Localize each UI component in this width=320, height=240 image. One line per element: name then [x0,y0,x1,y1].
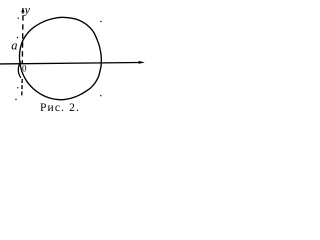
speck dot 6 [100,95,101,96]
y-axis arrowhead [21,8,24,13]
svg-text:y: y [24,2,31,16]
y-axis dashed line (upper part) [21,15,24,63]
circle [19,17,101,99]
speck dot 2 [17,37,18,38]
svg-text:Рис. 2.: Рис. 2. [40,102,80,114]
x-axis arrowhead [139,61,145,64]
svg-text:0: 0 [22,63,27,73]
speck dot 1 [18,18,19,19]
speck dot 4 [15,99,16,100]
x-axis [0,63,140,64]
speck dot 5 [100,21,101,22]
y-axis dashed line (lower part) [21,79,23,96]
origin wobble arc "(" [18,62,21,78]
svg-text:a: a [11,38,17,52]
speck dot 3 [17,87,18,88]
